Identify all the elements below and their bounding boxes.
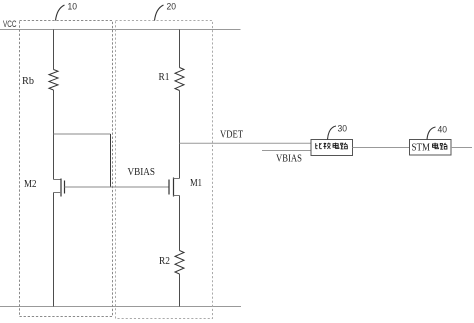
label 30 leader [328, 126, 337, 140]
wire block 30 to block 40 [353, 147, 410, 149]
svg-text:R1: R1 [159, 71, 170, 83]
svg-text:STM: STM [412, 142, 431, 153]
node VDET wire to block 30 [180, 142, 312, 144]
resistor Rb [49, 70, 58, 90]
block 40 STM box [410, 140, 452, 156]
svg-text:40: 40 [438, 125, 448, 136]
svg-text:R2: R2 [159, 255, 170, 267]
svg-text:10: 10 [68, 2, 78, 13]
svg-text:VCC: VCC [3, 19, 17, 29]
wire node A horizontal (drain to gate feedback) [54, 133, 111, 135]
svg-text:M1: M1 [190, 177, 202, 189]
svg-text:30: 30 [338, 124, 348, 135]
dashed block 20 boundary [116, 21, 213, 319]
wire M1 source to R2 [179, 196, 181, 251]
svg-text:VBIAS: VBIAS [128, 166, 156, 178]
label 10 leader [56, 5, 65, 21]
output wire from block 40 [451, 147, 472, 149]
svg-text:Rb: Rb [22, 75, 34, 87]
wire R1 to M1 drain (node VDET) [179, 91, 181, 179]
resistor R1 [175, 68, 184, 91]
wire M2 source to ground rail [53, 193, 55, 307]
label 20 leader [155, 5, 164, 21]
transistor M1 [169, 178, 180, 197]
svg-text:20: 20 [167, 2, 177, 13]
wire VCC to R1 [179, 30, 181, 68]
resistor R2 [175, 251, 184, 275]
wire M2 gate to M1 gate [65, 186, 170, 188]
label 40 leader [427, 127, 436, 140]
VCC power rail [0, 29, 241, 31]
ground rail [0, 306, 241, 308]
svg-text:VDET: VDET [220, 129, 243, 141]
dashed block 10 boundary [20, 21, 113, 317]
svg-text:VBIAS: VBIAS [276, 154, 302, 165]
svg-text:M2: M2 [24, 178, 37, 190]
wire VCC to Rb [53, 30, 55, 70]
wire R2 to ground rail [179, 274, 181, 307]
wire feedback vertical [110, 134, 112, 187]
wire Rb to M2 drain [53, 90, 55, 180]
block 30 comparator box [311, 140, 353, 156]
VBIAS input wire to block 30 [262, 150, 311, 152]
block 30 text: 比较电路 [316, 143, 348, 149]
transistor M2 [54, 179, 65, 197]
